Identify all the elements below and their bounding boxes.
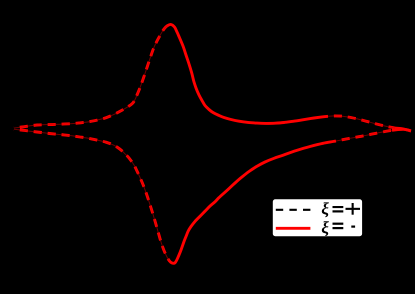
legend dashed line sample: [276, 209, 311, 211]
legend red line sample: [276, 227, 311, 230]
curve xi-minus lower branch (solid red): [14, 129, 411, 263]
curve xi-plus black dashes over upper-right: [328, 116, 395, 128]
curve xi-plus black dashes over upper-left: [14, 26, 168, 128]
curve xi-minus thin fringe along upper-right dashes: [328, 116, 395, 128]
curve xi-plus black dashes over lower-left: [14, 129, 170, 261]
legend frame: [272, 199, 362, 237]
curve xi-minus thin fringe along lower-right dashes: [336, 130, 392, 141]
curve xi-minus upper branch (solid red): [14, 24, 411, 130]
curve xi-minus thin fringe along upper-left dashes: [14, 26, 168, 128]
legend label xi = minus: [322, 221, 329, 236]
curve xi-plus black dashes over lower-right: [336, 130, 392, 141]
legend label xi = plus: [322, 202, 329, 217]
curve xi-minus thin fringe along lower-left dashes: [14, 129, 170, 261]
